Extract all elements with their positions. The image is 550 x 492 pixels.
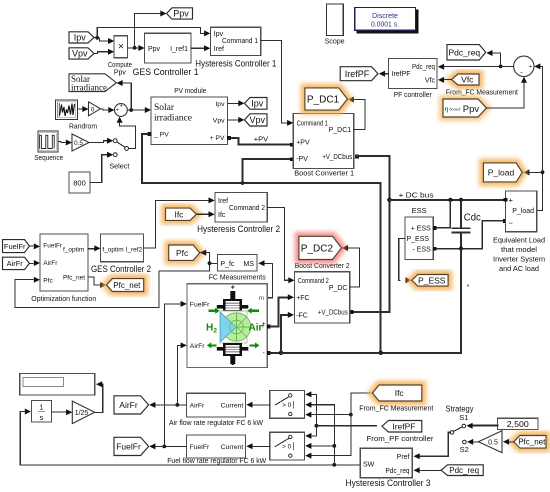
svg-text:Air flow rate regulator FC 6 k: Air flow rate regulator FC 6 kW: [169, 420, 263, 427]
svg-text:Vpv: Vpv: [250, 115, 266, 125]
svg-text:0.0001 s.: 0.0001 s.: [371, 19, 399, 28]
svg-text:Pfc_net: Pfc_net: [113, 281, 141, 290]
svg-text:×: ×: [118, 42, 124, 53]
source block Randrom: [56, 100, 98, 131]
sum circle load: [514, 56, 534, 76]
svg-text:2: 2: [213, 328, 217, 335]
Goto tag FuelFr bottom: [114, 437, 149, 455]
wire Pfc_net to tag: [88, 277, 106, 288]
From tag Vfc: [452, 74, 480, 85]
block FC stack: [187, 284, 267, 369]
svg-text:m: m: [259, 295, 265, 302]
stray dot: [467, 284, 469, 286]
Goto tag P_ESS: [412, 275, 448, 287]
svg-text:Randrom: Randrom: [69, 124, 97, 131]
svg-text:PV module: PV module: [174, 86, 206, 95]
sum circle irradiance: [115, 104, 128, 117]
svg-text:Vpv: Vpv: [213, 117, 225, 124]
wire 2500 to S1: [466, 423, 497, 429]
svg-text:P_fc: P_fc: [220, 261, 235, 268]
svg-text:Ipv: Ipv: [251, 99, 264, 109]
block ESS: [405, 206, 437, 259]
svg-text:800: 800: [73, 178, 86, 187]
svg-text:IrefPF: IrefPF: [392, 421, 415, 431]
wire AirFr to Opt: [29, 260, 40, 266]
svg-text:+: +: [231, 284, 235, 291]
FC output - junction: [267, 312, 381, 355]
svg-text:H: H: [206, 323, 213, 334]
svg-text:P_load: P_load: [512, 208, 534, 215]
wire gain0 to sum: [101, 107, 115, 113]
negative bus right: [379, 249, 462, 355]
svg-text:P_load: P_load: [488, 167, 515, 177]
svg-text:- ESS: - ESS: [413, 246, 432, 253]
svg-text:SW: SW: [363, 462, 375, 469]
svg-text:+V_DCbus: +V_DCbus: [318, 310, 348, 317]
svg-text:Command 1: Command 1: [222, 38, 258, 45]
svg-text:0.5: 0.5: [488, 440, 498, 447]
From tag Vpv: [69, 48, 94, 59]
Goto tag Pdc_req top: [447, 45, 486, 60]
svg-text:-PV: -PV: [296, 156, 308, 163]
wire SW to integrator: [25, 409, 31, 415]
wire switch to sum: [117, 117, 136, 149]
svg-text:Pfc_net: Pfc_net: [63, 274, 85, 281]
switch block 1: [270, 391, 305, 419]
svg-text:AirFr: AirFr: [7, 259, 24, 268]
svg-text:-: -: [231, 359, 234, 369]
wire pole to Pref: [414, 432, 451, 459]
wire P_ESS to tag: [399, 238, 412, 283]
block integrator 1/s: [31, 400, 51, 422]
wire FuelFr to Opt: [29, 243, 40, 249]
svg-text:Pdc_req: Pdc_req: [449, 466, 479, 475]
svg-text:+: +: [120, 104, 123, 110]
block GES Controller 1: [133, 33, 199, 77]
wire f_optim to GES2: [88, 245, 101, 251]
wire switch2 to reg2: [246, 443, 269, 449]
svg-text:irradiance: irradiance: [71, 82, 107, 92]
svg-text:1/25: 1/25: [75, 410, 89, 417]
wire HC1 Command1 to Boost1: [261, 41, 294, 126]
svg-text:Pref: Pref: [397, 454, 410, 461]
svg-text:P_DC1: P_DC1: [307, 95, 340, 106]
svg-text:+FC: +FC: [296, 295, 309, 302]
svg-text:Ppv: Ppv: [148, 46, 161, 53]
svg-text:Ppv: Ppv: [173, 9, 189, 19]
wire Ipv to product and HC1: [94, 28, 211, 45]
svg-text:Sequence: Sequence: [34, 155, 63, 162]
wire m to MS: [258, 260, 272, 297]
+DC bus horizontal: [389, 190, 503, 202]
label Strategy: [446, 405, 474, 414]
block Hysteresis Controller 1: [195, 27, 276, 68]
label From_FC Measurement top: [446, 88, 519, 97]
wire I_ref2 to HC2 Iref: [144, 197, 215, 248]
svg-text:boost1: boost1: [449, 107, 460, 112]
svg-text:AirFr: AirFr: [43, 260, 58, 267]
gain 1/25 triangle: [72, 401, 94, 424]
product block Compute Ppv: [108, 36, 132, 77]
svg-text:+: +: [116, 108, 119, 114]
block Optimization function: [31, 234, 96, 303]
svg-text:Select: Select: [109, 164, 129, 171]
svg-text:+PV: +PV: [296, 139, 310, 146]
wire GES1 to HC1 Iref: [191, 45, 210, 51]
svg-text:Command 1: Command 1: [297, 120, 328, 127]
svg-text:Ifc: Ifc: [218, 212, 226, 219]
svg-text:and AC load: and AC load: [499, 264, 539, 273]
wire gain to display: [95, 381, 103, 412]
switch S2 circle: [463, 440, 467, 444]
block Display: [20, 374, 95, 395]
svg-text:1: 1: [39, 402, 43, 411]
svg-text:Pdc_req: Pdc_req: [412, 64, 435, 71]
From tag Ifc bottom: [373, 385, 422, 401]
wire +V_DCbus vertical: [350, 155, 392, 314]
svg-text:ESS: ESS: [412, 206, 427, 215]
svg-text:S1: S1: [459, 413, 468, 422]
svg-text:0: 0: [91, 106, 95, 113]
svg-text:AirFr: AirFr: [190, 343, 205, 350]
svg-text:Pdc_req: Pdc_req: [449, 47, 481, 57]
svg-text:Pfc: Pfc: [176, 248, 189, 258]
wire Pdc_req to HC3: [414, 467, 442, 473]
wire Ifc to switch inputs: [305, 393, 372, 459]
block Hysteresis Controller 3: [346, 448, 431, 488]
From tag AirFr left: [3, 257, 30, 269]
switch block 2: [270, 432, 305, 460]
wire sequence to gain05: [58, 140, 72, 146]
gain 0 triangle: [89, 102, 101, 116]
svg-text:From_FC Measurement: From_FC Measurement: [359, 403, 434, 412]
label S1: [459, 413, 468, 422]
block Boost Converter 2: [295, 261, 350, 323]
switch lever: [454, 427, 463, 432]
Goto tag Pfc_net: [107, 279, 144, 292]
wire Pfc junction feedback: [15, 250, 217, 308]
svg-text:Solar: Solar: [154, 103, 175, 113]
svg-text:+ ESS: + ESS: [411, 226, 431, 233]
svg-text:Ipv: Ipv: [74, 33, 87, 43]
svg-text:+V_DCbus: +V_DCbus: [322, 154, 352, 161]
svg-text:f_optim: f_optim: [63, 246, 84, 253]
wire P_DC to tag: [342, 245, 360, 287]
svg-text:Command 2: Command 2: [298, 278, 329, 285]
svg-text:AirFr: AirFr: [119, 400, 138, 410]
svg-text:Ipv: Ipv: [215, 101, 225, 108]
svg-text:Pfc: Pfc: [43, 278, 53, 285]
constant block 800: [69, 172, 90, 193]
block Scope: [325, 4, 345, 46]
svg-text:Iref: Iref: [214, 46, 224, 53]
From tag Ppv eta: [443, 99, 486, 117]
wire PF IrefPF out: [379, 71, 389, 77]
svg-text:I_ref2: I_ref2: [126, 246, 143, 253]
constant 2500: [498, 418, 538, 429]
block Equivalent Load: [493, 191, 545, 273]
svg-text:P_DC1: P_DC1: [329, 127, 352, 134]
svg-text:Pdc_req: Pdc_req: [386, 468, 410, 475]
capacitor Cdc: [453, 200, 481, 249]
svg-text:η: η: [445, 105, 449, 113]
wire -ESS to P_load minus: [436, 219, 506, 250]
switch S1 circle: [462, 424, 466, 428]
svg-text:PF controller: PF controller: [394, 90, 432, 99]
wire integrator to gain: [52, 409, 73, 415]
svg-text:Ifc: Ifc: [174, 209, 184, 219]
Goto tag Pfc: [169, 245, 200, 260]
block FC Measurements: [209, 254, 266, 281]
svg-text:Vfc: Vfc: [461, 75, 474, 85]
svg-text:+: +: [529, 65, 533, 71]
svg-text:Ifc: Ifc: [395, 388, 405, 398]
svg-text:I_ref1: I_ref1: [170, 46, 188, 53]
svg-text:> 0⎥: > 0⎥: [282, 400, 294, 409]
svg-text:AirFr: AirFr: [190, 403, 205, 410]
svg-text:Boost Converter 1: Boost Converter 1: [294, 168, 354, 177]
svg-text:+: +: [261, 324, 265, 330]
svg-text:Command 2: Command 2: [229, 205, 265, 212]
svg-text:P_DC: P_DC: [329, 285, 348, 292]
svg-text:_ PV: _ PV: [153, 132, 169, 139]
block PF controller: [389, 59, 437, 100]
wire gain to S2: [467, 439, 478, 445]
wire 800 to switch: [90, 152, 113, 183]
svg-text:S2: S2: [460, 445, 469, 454]
block Air flow regulator: [169, 393, 263, 427]
svg-text:FuelFr: FuelFr: [190, 444, 210, 451]
svg-text:IrefPF: IrefPF: [392, 71, 411, 78]
wire Vpv to product: [94, 49, 115, 55]
label From_FC Measurement bottom: [359, 403, 434, 412]
block Discrete solver: [355, 7, 418, 33]
wire sum out to PF and Pdc_req tag: [438, 50, 514, 70]
Goto tag Ipv right: [245, 98, 268, 110]
svg-text:+ PV: + PV: [210, 135, 225, 142]
svg-text:P_DC2: P_DC2: [301, 244, 334, 255]
svg-text:Hysteresis Controller 2: Hysteresis Controller 2: [197, 224, 280, 234]
Goto tag P_DC1: [305, 88, 348, 110]
svg-text:GES Controller 1: GES Controller 1: [133, 67, 199, 77]
label S2: [460, 445, 469, 454]
manual switch Select: [89, 138, 129, 171]
From tag Ipv: [69, 32, 94, 43]
gain 0.5 strategy: [478, 431, 502, 453]
svg-text:-FC: -FC: [296, 313, 308, 320]
svg-text:+: +: [509, 196, 514, 205]
block PV module: [148, 86, 231, 145]
wire Vfc to PF: [438, 77, 452, 83]
switch pole circle: [450, 431, 454, 435]
wire Ifc to HC2: [196, 211, 214, 217]
svg-text:+PV: +PV: [254, 135, 268, 144]
svg-text:0.5: 0.5: [74, 140, 83, 147]
From tag FuelFr left: [3, 240, 30, 253]
Goto tag IrefPF: [340, 67, 378, 81]
svg-text:−: −: [509, 219, 514, 228]
Goto tag P_load: [483, 163, 522, 182]
svg-text:Vfc: Vfc: [425, 77, 436, 84]
block Fuel flow regulator: [167, 435, 266, 465]
Goto tag Pfc_net bottom: [514, 436, 546, 449]
svg-text:Hysteresis Controller 3: Hysteresis Controller 3: [346, 478, 431, 488]
svg-text:IrefPF: IrefPF: [345, 69, 370, 79]
svg-text:FuelFr: FuelFr: [116, 441, 141, 451]
wire random to gain: [78, 106, 89, 112]
block Boost Converter 1: [293, 114, 354, 178]
svg-text:From_PF controller: From_PF controller: [367, 434, 435, 443]
svg-text:MS: MS: [244, 261, 255, 268]
svg-text:that model: that model: [501, 245, 537, 254]
wire switch1 to reg1: [246, 402, 269, 408]
svg-text:From_FC Measurement: From_FC Measurement: [446, 88, 519, 97]
svg-text:Ppv: Ppv: [463, 104, 480, 115]
svg-text:Ppv: Ppv: [114, 70, 127, 77]
svg-text:Inverter System: Inverter System: [493, 254, 545, 263]
wire PV Vpv to tag: [228, 117, 245, 123]
svg-text:P_ESS: P_ESS: [407, 236, 430, 243]
svg-text:FuelFr: FuelFr: [4, 242, 26, 251]
svg-text:+ DC bus: + DC bus: [399, 190, 434, 199]
svg-text:Hysteresis Controller 1: Hysteresis Controller 1: [195, 58, 276, 68]
wire Pfc_net to gain: [503, 439, 514, 445]
wire Ppv eta to sum: [486, 77, 527, 108]
svg-text:Pfc_net: Pfc_net: [518, 438, 546, 447]
Goto tag Vpv right: [245, 114, 268, 126]
svg-text:Vpv: Vpv: [72, 49, 88, 59]
From tag IrefPF bottom: [382, 421, 422, 433]
wire IrefPF to switch inputs: [305, 391, 376, 439]
svg-text:Equivalent Load: Equivalent Load: [493, 235, 545, 244]
From tag Ifc mid: [166, 208, 197, 220]
svg-text:GES Controller 2: GES Controller 2: [91, 264, 151, 274]
svg-text:> 0⎥: > 0⎥: [282, 442, 294, 451]
Goto tag Ppv: [167, 8, 193, 19]
svg-text:Optimization function: Optimization function: [31, 296, 96, 303]
svg-text:f_optim: f_optim: [102, 246, 123, 253]
Goto tag Solar irradiance: [69, 74, 116, 93]
wire reg2 out: [149, 301, 187, 450]
svg-text:Cdc: Cdc: [464, 212, 481, 223]
label From_PF controller: [367, 434, 435, 443]
svg-text:Current: Current: [221, 403, 244, 410]
wire reg1 out: [149, 342, 187, 408]
block Hysteresis Controller 2: [197, 192, 280, 234]
wire PV Ipv to tag: [228, 100, 245, 106]
wire product out: [128, 11, 167, 52]
svg-text:s: s: [40, 413, 44, 422]
source block Sequence: [34, 131, 63, 162]
svg-text:Current: Current: [221, 444, 244, 451]
svg-text:Compute: Compute: [108, 62, 132, 69]
Goto tag AirFr bottom: [114, 396, 149, 414]
svg-text:FuelFr: FuelFr: [43, 242, 63, 249]
svg-text:irradiance: irradiance: [154, 114, 192, 124]
wire +ESS to bus: [436, 200, 450, 228]
svg-text:FuelFr: FuelFr: [190, 301, 210, 308]
svg-text:FC Measurements: FC Measurements: [209, 272, 266, 281]
FC output + to Boost2: [267, 294, 294, 328]
wire P_load vertical: [523, 63, 544, 210]
block GES Controller 2: [91, 234, 151, 274]
wire +PV to Boost1: [231, 135, 294, 147]
wire sum to PV module: [116, 80, 151, 113]
wire P_DC1 to tag: [348, 97, 365, 130]
svg-text:Ipv: Ipv: [214, 31, 224, 38]
svg-text:Fuel flow rate regulator FC 6: Fuel flow rate regulator FC 6 kW: [167, 458, 266, 465]
Goto tag P_DC2: [299, 236, 342, 259]
svg-text:P_ESS: P_ESS: [418, 275, 446, 285]
wire HC2 out to Boost2: [267, 207, 294, 283]
svg-text:2,500: 2,500: [507, 420, 530, 429]
svg-text:Scope: Scope: [325, 37, 345, 46]
wire SW feedback: [20, 402, 360, 467]
gain 0.5 triangle: [72, 134, 89, 151]
wire -PV negative bus: [142, 134, 381, 353]
From tag Pdc_req bottom: [441, 465, 483, 476]
svg-text:Iref: Iref: [218, 198, 228, 205]
